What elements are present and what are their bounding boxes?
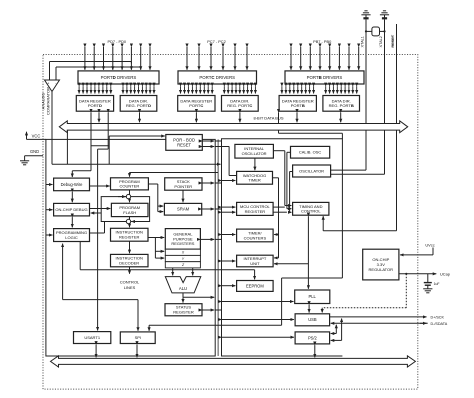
- wire gap row POR1: [215, 140, 221, 142]
- node junction on UCap line: [405, 273, 407, 275]
- svg-text:PLL: PLL: [309, 294, 317, 299]
- DATA DIR REG PORTB: [323, 96, 360, 112]
- USB block: [295, 314, 330, 326]
- svg-text:TIMER: TIMER: [248, 178, 261, 183]
- wire port pin to Debug-Wire: [90, 112, 92, 170]
- crystal Y1: [365, 27, 386, 36]
- self-programming boundary around flash: [101, 197, 149, 222]
- svg-text:SRAM: SRAM: [177, 207, 190, 212]
- wire D-/SDATA: [331, 322, 428, 324]
- general purpose registers block: [165, 229, 200, 250]
- svg-text:1uF: 1uF: [434, 282, 440, 286]
- wire edge to interrupt unit: [222, 260, 236, 262]
- svg-text:OSCILLATOR: OSCILLATOR: [299, 168, 324, 173]
- PORTD drivers: [78, 71, 159, 84]
- wire Debug-Wire to on-chip debug: [71, 192, 73, 202]
- PORTB drivers: [285, 71, 364, 84]
- svg-text:XTAL2: XTAL2: [379, 36, 383, 47]
- wire MCU control to timing row1: [273, 206, 285, 208]
- calibrated oscillator block: [291, 146, 330, 158]
- instruction register block: [111, 228, 149, 241]
- wire edge to PLL: [222, 301, 294, 303]
- svg-text:UCap: UCap: [440, 271, 450, 276]
- wire programming logic to SPI: [62, 244, 64, 300]
- timing and control block: [293, 202, 329, 215]
- svg-text:GND: GND: [30, 149, 39, 154]
- POR-BOD RESET block: [166, 135, 203, 151]
- wire flash to node: [129, 217, 131, 220]
- wire peripheral bus to SPI: [149, 324, 282, 326]
- svg-text:D-/SDATA: D-/SDATA: [431, 322, 448, 326]
- stack pointer block: [165, 178, 202, 190]
- register file rows X Y Z: [165, 249, 200, 268]
- peripheral block outline: [222, 139, 343, 356]
- ground symbol XTAL2 cap: [380, 11, 389, 15]
- analog comparator U1: [45, 80, 60, 92]
- svg-text:PORTC: PORTC: [189, 103, 203, 108]
- svg-text:XTAL1: XTAL1: [361, 36, 365, 47]
- wire edge to Debug-Wire: [46, 184, 53, 186]
- wire edge to MCU control row1: [222, 206, 236, 208]
- svg-text:FLASH: FLASH: [123, 210, 136, 215]
- wire PORTB register to peripheral block: [278, 112, 280, 133]
- DATA REGISTER PORTC: [178, 96, 215, 112]
- wire program counter to SRAM: [148, 183, 157, 185]
- wire edge to watchdog upper: [222, 146, 230, 148]
- arrow on flash boundary top: [118, 196, 126, 198]
- wire registers to ALU left: [172, 268, 174, 276]
- wire registers to internal bus: [200, 238, 214, 240]
- wire oscillator to XTAL2: [331, 173, 385, 175]
- wire RESET horizontal: [323, 230, 396, 232]
- on-chip debug block: [54, 203, 90, 216]
- SPI block: [120, 332, 155, 344]
- wire VCC: [27, 138, 46, 140]
- wire gap row SRAM: [215, 208, 221, 210]
- wire flash to on-chip debug: [91, 212, 102, 214]
- CPU core block outline: [46, 139, 215, 356]
- register-bus arrows: [99, 113, 341, 123]
- node circle top of flash: [126, 194, 130, 198]
- wire edge to USB: [222, 319, 294, 321]
- drivers-register arrows group 2: [123, 86, 154, 93]
- svg-text:LINES: LINES: [124, 285, 136, 290]
- svg-text:Debug-Wire: Debug-Wire: [61, 182, 84, 187]
- svg-text:POINTER: POINTER: [174, 184, 192, 189]
- PORTB pins PB7-PB0: [291, 47, 359, 70]
- wire SRAM to internal bus: [202, 208, 215, 210]
- EEPROM block: [237, 281, 274, 292]
- wire regulator power to USB (dashed): [405, 274, 407, 308]
- wire comparator output vertical: [51, 92, 53, 165]
- svg-text:USART1: USART1: [84, 335, 100, 340]
- svg-text:REG. PORTB: REG. PORTB: [329, 103, 354, 108]
- wire gap row status: [215, 309, 221, 311]
- wire internal oscillator to timing: [273, 150, 284, 152]
- 8-bit data bus (top): [59, 121, 407, 133]
- wire comparator output horizontal: [52, 163, 221, 165]
- PORTC drivers: [178, 71, 257, 84]
- wire instruction register to registers: [148, 237, 164, 239]
- svg-text:REGISTERS: REGISTERS: [171, 241, 194, 246]
- wire to POR horizontal: [109, 135, 165, 137]
- wire instruction register to decoder: [129, 241, 131, 253]
- wire USART1 to data bus: [95, 345, 97, 358]
- svg-text:PC7 - PC2: PC7 - PC2: [207, 39, 226, 44]
- arrow D-/SDATA external: [420, 322, 427, 324]
- timer counters block: [237, 229, 274, 242]
- svg-text:PORTD: PORTD: [88, 103, 102, 108]
- svg-text:SPI: SPI: [135, 335, 141, 340]
- wire PS/2 to D-/SDATA: [335, 325, 337, 334]
- svg-text:REGISTER: REGISTER: [173, 310, 194, 315]
- wire PS/2 to D+/SCK: [341, 319, 343, 341]
- svg-text:LOGIC: LOGIC: [65, 235, 78, 240]
- wire gap row registers: [215, 238, 221, 240]
- arrow on flash boundary bottom: [131, 221, 139, 223]
- wire Debug-Wire to program counter: [90, 185, 110, 187]
- SRAM block: [164, 203, 201, 215]
- wire GND stub: [24, 156, 26, 161]
- wire calib osc to timing: [287, 151, 291, 153]
- wire comparator input 2 stub: [55, 67, 57, 80]
- drivers-register arrows group 4: [224, 86, 255, 93]
- program flash block: [111, 203, 148, 216]
- drivers-register arrows group 1: [79, 86, 111, 93]
- ground symbol UCap: [423, 289, 432, 293]
- DATA DIR REG PORTC: [222, 96, 259, 112]
- interrupt unit block: [237, 255, 274, 267]
- wire XTAL2: [384, 19, 386, 174]
- chip boundary (dashed border): [43, 55, 418, 390]
- svg-text:DECODER: DECODER: [119, 260, 139, 265]
- wire XTAL1: [365, 19, 367, 170]
- node circle bottom of flash: [126, 219, 130, 223]
- svg-text:RESET: RESET: [177, 142, 191, 147]
- drivers-register arrows group 6: [326, 86, 357, 93]
- wire edge to timer counters: [222, 234, 236, 236]
- wire edge to EEPROM: [222, 285, 236, 287]
- wire GND: [25, 155, 43, 157]
- svg-text:REGISTER: REGISTER: [245, 209, 266, 214]
- drivers-register arrows group 5: [282, 86, 314, 93]
- svg-text:REGULATOR: REGULATOR: [369, 267, 394, 272]
- svg-text:REGISTER: REGISTER: [119, 235, 140, 240]
- PLL block: [295, 290, 330, 304]
- wire PLL to USB: [308, 305, 310, 313]
- wire PS/2 to data bus: [314, 345, 316, 357]
- wire POR-BOD to bus row2: [202, 146, 214, 148]
- ALU: [165, 277, 201, 293]
- wire edge to watchdog lower: [222, 180, 236, 182]
- wire port tap to comparator line: [66, 130, 68, 164]
- svg-text:UVcc: UVcc: [425, 242, 434, 247]
- instruction decoder block: [111, 254, 149, 266]
- svg-text:VCC: VCC: [32, 133, 41, 138]
- svg-text:COUNTERS: COUNTERS: [244, 235, 267, 240]
- svg-text:COUNTER: COUNTER: [120, 184, 140, 189]
- wire peripheral vertical bus: [281, 278, 283, 325]
- ground symbol GND pin: [20, 161, 29, 165]
- wire status register to internal bus: [202, 309, 214, 311]
- svg-text:PD7 - PD0: PD7 - PD0: [107, 39, 126, 44]
- wire port pin to USART1: [107, 112, 109, 149]
- wire peripheral bus to timer counters: [274, 234, 278, 236]
- internal oscillator block: [235, 144, 274, 158]
- PORTC pins PC7-PC2: [187, 47, 247, 70]
- wire decoder control lines arrow: [129, 267, 131, 274]
- wire edge to MCU control row2: [222, 211, 236, 213]
- oscillator block: [293, 165, 331, 177]
- wire stack pointer to SRAM: [182, 190, 184, 202]
- wire stack pointer to internal bus: [202, 182, 214, 184]
- wire ALU output: [182, 293, 184, 297]
- wire edge to programming logic: [46, 234, 53, 236]
- MCU control register block: [237, 202, 274, 215]
- wire on-chip debug to flash: [90, 208, 111, 210]
- wire MCU control to timing row2: [273, 211, 287, 213]
- capacitor C3 (UCap): [424, 274, 440, 289]
- svg-text:D+/SCK: D+/SCK: [431, 315, 445, 319]
- DATA REGISTER PORTD: [76, 96, 113, 112]
- wire regulator output UCap: [399, 273, 436, 275]
- internal bus line (gap): [217, 139, 219, 356]
- svg-text:UNIT: UNIT: [250, 261, 260, 266]
- capacitor C2: [382, 15, 387, 18]
- wire comparator input 1 stub: [49, 62, 51, 81]
- wire edge to on-chip debug: [46, 209, 53, 211]
- wire to program counter top: [130, 172, 219, 174]
- wire program counter to flash upper: [129, 190, 131, 195]
- on-chip 3.3V regulator block: [363, 249, 399, 280]
- DATA DIR REG PORTD: [120, 96, 157, 112]
- svg-text:8-BIT DATA BUS: 8-BIT DATA BUS: [253, 115, 283, 120]
- svg-text:RESET: RESET: [391, 34, 395, 47]
- wire gap row stack pointer: [215, 182, 221, 184]
- svg-text:REG. PORTC: REG. PORTC: [227, 103, 252, 108]
- svg-text:ON-CHIP DEBUG: ON-CHIP DEBUG: [55, 207, 87, 212]
- svg-text:+: +: [47, 82, 49, 86]
- label RESET (active low): [391, 34, 395, 47]
- svg-text:CALIB. OSC: CALIB. OSC: [299, 150, 322, 155]
- program counter block: [111, 178, 149, 190]
- wire to POR vertical: [108, 136, 110, 164]
- svg-text:COMPARATOR: COMPARATOR: [46, 87, 51, 115]
- PS/2 block: [295, 332, 330, 344]
- wire POR-BOD to bus row1: [202, 140, 214, 142]
- ground symbol XTAL1 cap: [361, 11, 370, 15]
- wire gap row POR2: [215, 146, 229, 148]
- svg-text:PORTB: PORTB: [291, 103, 305, 108]
- svg-text:PORTC DRIVERS: PORTC DRIVERS: [199, 75, 235, 80]
- DATA REGISTER PORTB: [279, 96, 316, 112]
- wire SPI to data bus: [136, 345, 138, 358]
- wire programming logic to flash block: [90, 232, 105, 234]
- svg-text:PB7 - PB0: PB7 - PB0: [313, 39, 332, 44]
- capacitor C1: [363, 15, 368, 18]
- svg-text:PORTD DRIVERS: PORTD DRIVERS: [101, 75, 137, 80]
- svg-text:REG. PORTD: REG. PORTD: [126, 103, 151, 108]
- wire D+/SCK: [330, 316, 427, 318]
- wire timing to PLL: [307, 216, 309, 289]
- wire UVcc to regulator: [432, 248, 434, 255]
- programming logic block: [54, 229, 90, 242]
- wire comparator input 2: [56, 67, 141, 69]
- svg-text:CONTROL: CONTROL: [301, 209, 321, 214]
- wire on-chip debug to programming logic: [71, 217, 73, 227]
- wire junction segment: [91, 145, 109, 147]
- status register block: [165, 304, 202, 316]
- svg-text:EEPROM: EEPROM: [246, 283, 264, 288]
- svg-text:PS/2: PS/2: [308, 335, 318, 340]
- wire into program flash top: [129, 199, 131, 203]
- wire oscillator to XTAL1: [331, 169, 366, 171]
- wire internal osc to watchdog: [254, 158, 256, 170]
- svg-text:PORTB DRIVERS: PORTB DRIVERS: [307, 75, 343, 80]
- 8-bit data bus (bottom): [51, 356, 416, 367]
- wire edge to PS/2: [222, 336, 294, 338]
- wire oscillator to timing: [290, 171, 293, 173]
- svg-text:ALU: ALU: [179, 286, 187, 291]
- wire programming logic to EEPROM: [79, 242, 81, 270]
- PORTD pins PD7-PD0: [85, 47, 150, 70]
- drivers-register arrows group 3: [181, 86, 213, 93]
- watchdog timer block: [237, 171, 273, 184]
- wire RESET to timing and control: [322, 216, 324, 231]
- VCC pin arrow: [26, 132, 28, 140]
- svg-text:USB: USB: [308, 317, 317, 322]
- wire timing-PLL line to interrupt unit: [274, 263, 308, 265]
- wire comparator input 1: [50, 62, 132, 64]
- Debug-Wire block: [54, 178, 90, 191]
- wire registers to ALU right: [192, 268, 194, 276]
- wire watchdog to interrupt unit: [273, 177, 279, 179]
- USART1 block: [74, 332, 111, 344]
- wire peripheral bus horizontal upper: [282, 277, 343, 279]
- wire node to instruction register: [129, 224, 131, 228]
- svg-text:OSCILLATOR: OSCILLATOR: [242, 151, 267, 156]
- wire RESET vertical: [396, 24, 398, 231]
